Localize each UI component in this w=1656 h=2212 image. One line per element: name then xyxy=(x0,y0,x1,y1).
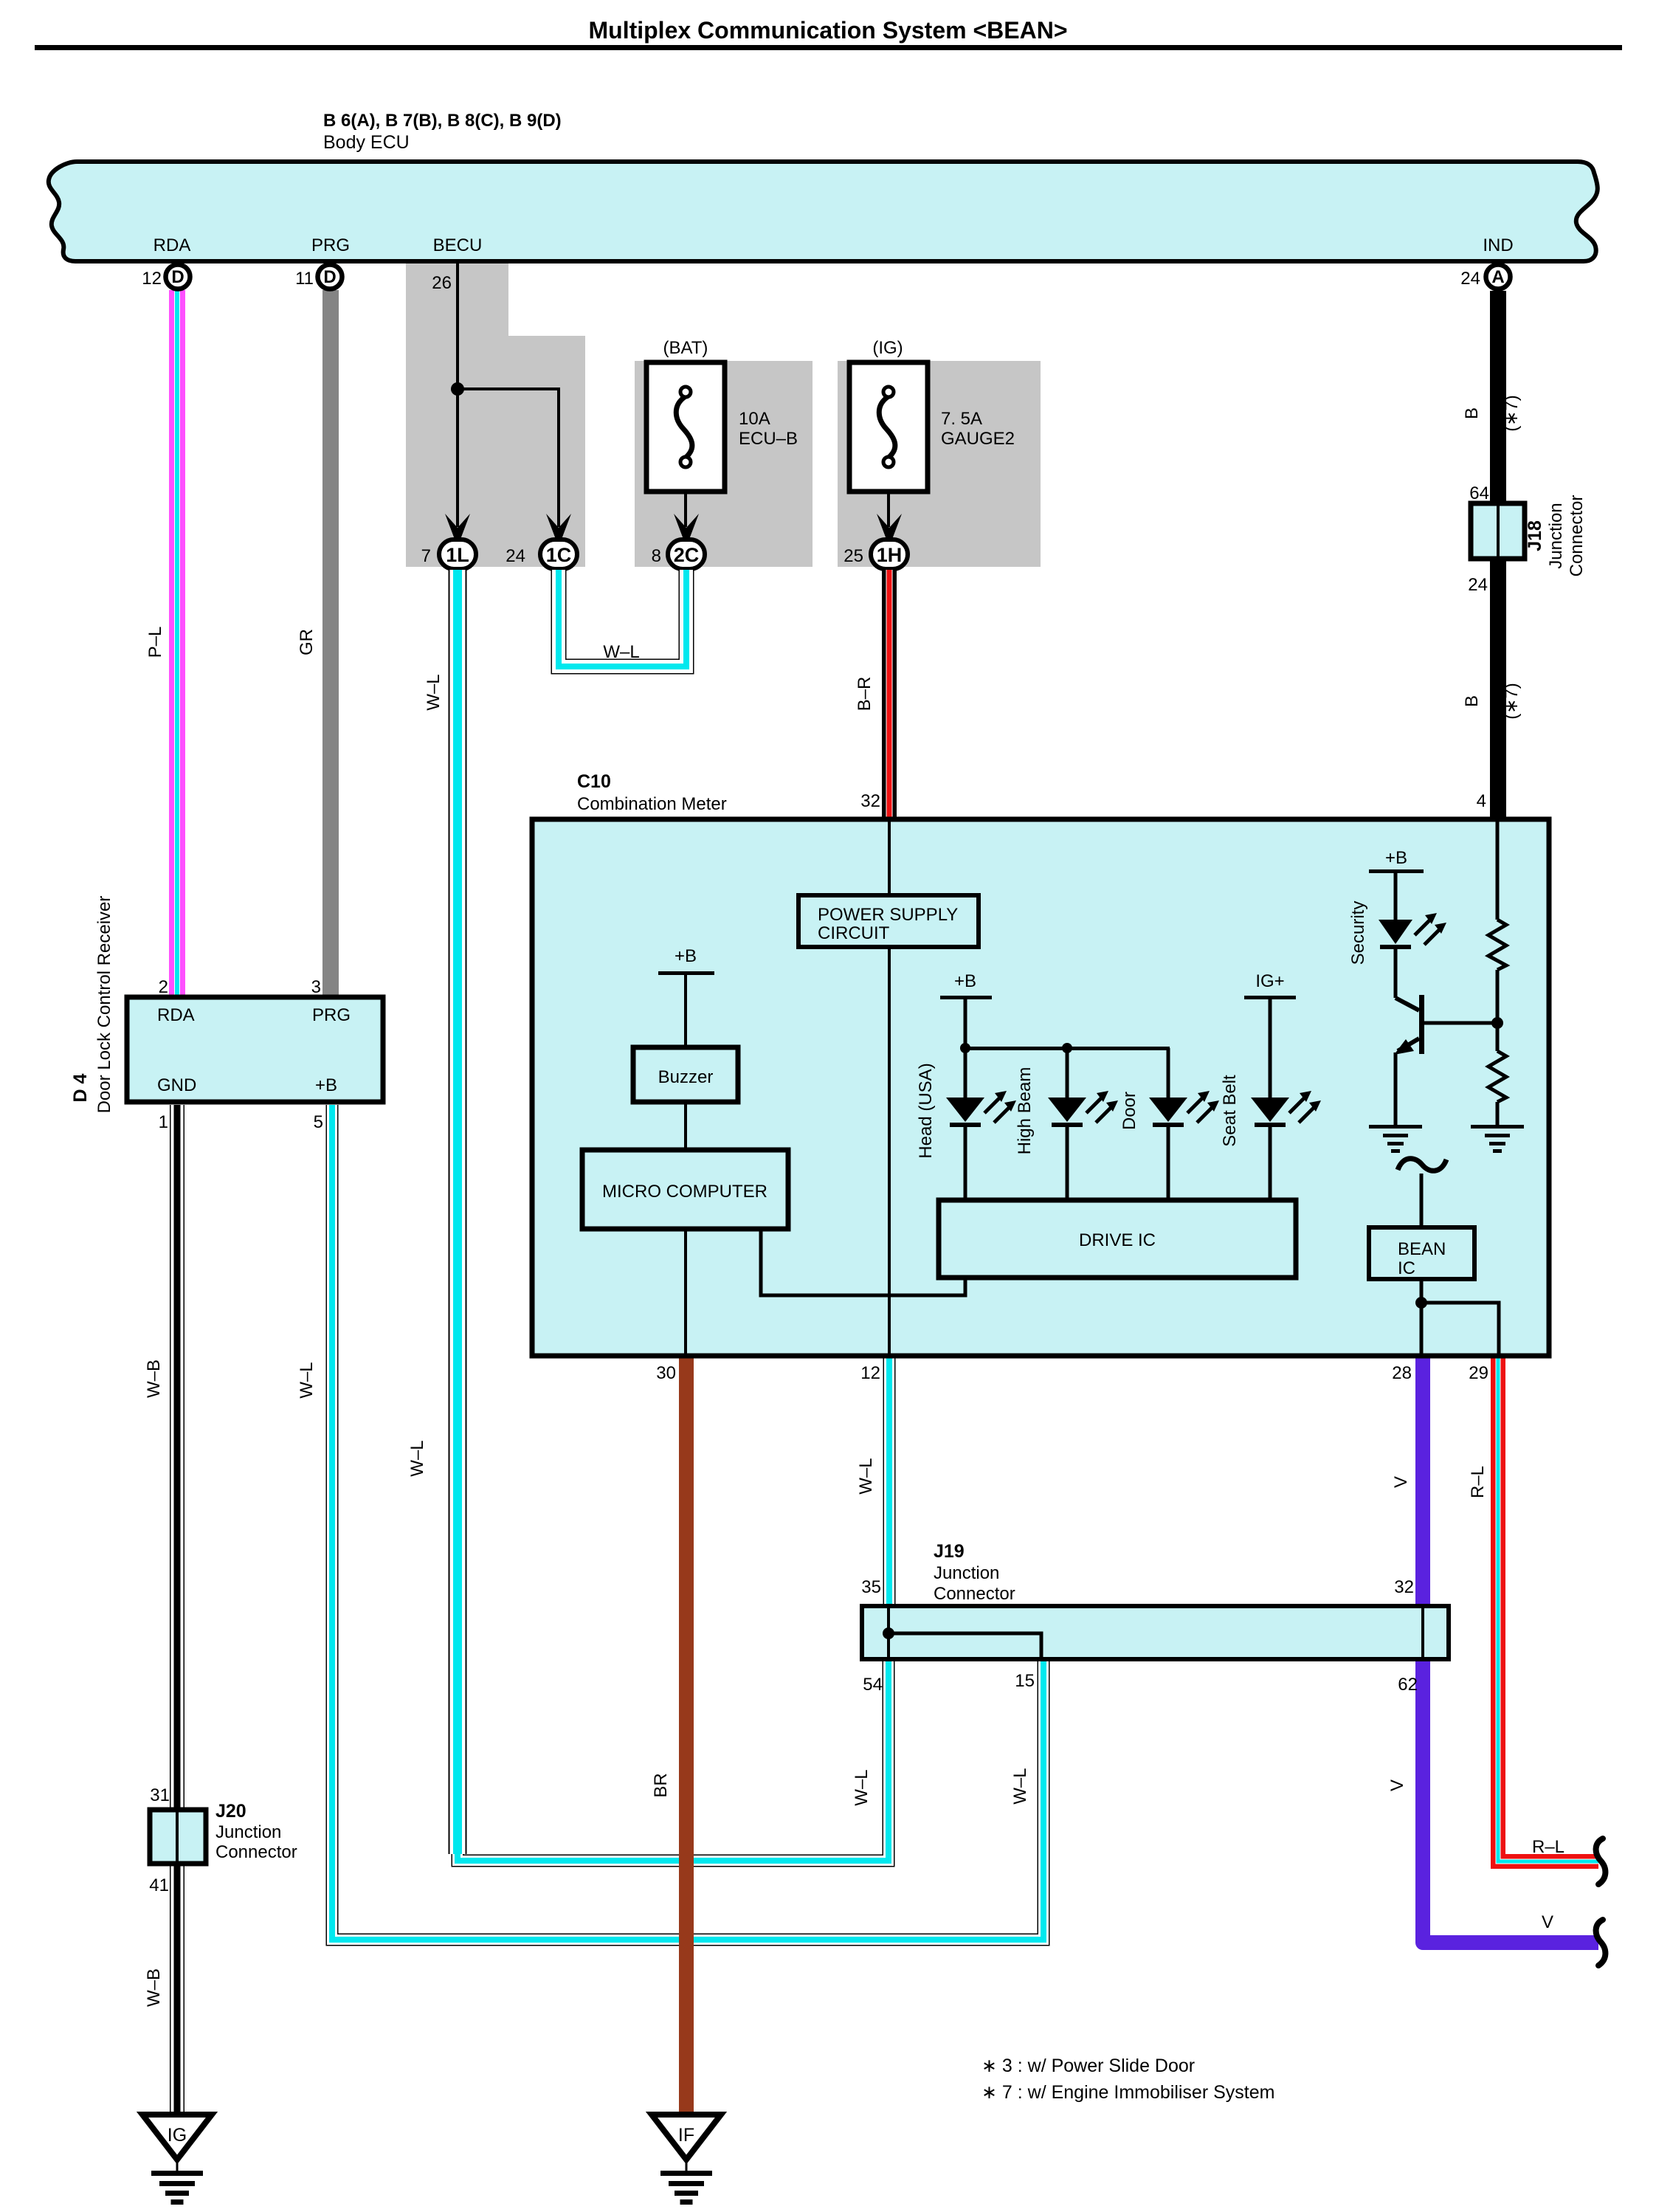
svg-text:Combination Meter: Combination Meter xyxy=(577,794,727,814)
svg-text:Door Lock Control Receiver: Door Lock Control Receiver xyxy=(94,896,114,1114)
svg-text:(BAT): (BAT) xyxy=(663,338,708,358)
svg-text:5: 5 xyxy=(314,1112,323,1132)
svg-text:1H: 1H xyxy=(877,544,903,566)
svg-text:∗ 7 : w/ Engine Immobiliser Sy: ∗ 7 : w/ Engine Immobiliser System xyxy=(981,2082,1274,2103)
svg-text:1C: 1C xyxy=(546,544,572,566)
svg-text:BECU: BECU xyxy=(433,235,483,255)
svg-text:Connector: Connector xyxy=(215,1842,297,1862)
svg-text:64: 64 xyxy=(1469,483,1489,503)
svg-text:+B: +B xyxy=(954,971,976,991)
svg-text:GAUGE2: GAUGE2 xyxy=(941,429,1015,449)
svg-text:W–L: W–L xyxy=(1010,1768,1030,1804)
svg-text:D: D xyxy=(171,267,184,287)
svg-text:B: B xyxy=(1462,407,1482,419)
svg-text:D 4: D 4 xyxy=(70,1073,91,1102)
svg-text:Junction: Junction xyxy=(1546,503,1566,568)
svg-text:W–L: W–L xyxy=(424,674,444,710)
svg-text:V: V xyxy=(1542,1912,1553,1932)
svg-text:7. 5A: 7. 5A xyxy=(941,409,982,429)
svg-text:Connector: Connector xyxy=(934,1584,1015,1604)
svg-text:(∗7): (∗7) xyxy=(1502,683,1522,719)
svg-text:1: 1 xyxy=(159,1112,168,1132)
svg-text:P–L: P–L xyxy=(145,627,165,658)
svg-text:W–L: W–L xyxy=(297,1362,317,1398)
svg-text:Connector: Connector xyxy=(1567,495,1587,577)
svg-text:10A: 10A xyxy=(739,409,770,429)
svg-text:J19: J19 xyxy=(934,1541,965,1562)
svg-text:30: 30 xyxy=(656,1363,676,1383)
svg-text:1L: 1L xyxy=(446,544,469,566)
svg-text:W–L: W–L xyxy=(603,642,639,662)
svg-text:Buzzer: Buzzer xyxy=(658,1067,714,1087)
svg-text:MICRO COMPUTER: MICRO COMPUTER xyxy=(602,1182,767,1202)
svg-text:A: A xyxy=(1491,267,1504,287)
svg-text:25: 25 xyxy=(843,546,863,566)
svg-text:∗ 3 : w/ Power Slide Door: ∗ 3 : w/ Power Slide Door xyxy=(981,2056,1195,2076)
svg-text:GR: GR xyxy=(297,629,317,655)
svg-text:26: 26 xyxy=(432,273,452,293)
svg-text:W–B: W–B xyxy=(144,1360,164,1398)
svg-text:12: 12 xyxy=(142,269,162,289)
svg-text:PRG: PRG xyxy=(312,1005,351,1025)
svg-text:J18: J18 xyxy=(1525,520,1545,551)
svg-text:W–L: W–L xyxy=(852,1769,872,1805)
svg-text:Security: Security xyxy=(1348,901,1368,965)
svg-text:Multiplex Communication System: Multiplex Communication System <BEAN> xyxy=(588,17,1067,44)
svg-text:32: 32 xyxy=(860,791,880,811)
svg-text:IG: IG xyxy=(168,2125,187,2146)
svg-text:28: 28 xyxy=(1392,1363,1412,1383)
svg-text:J20: J20 xyxy=(215,1801,246,1822)
svg-text:C10: C10 xyxy=(577,771,611,792)
svg-text:DRIVE IC: DRIVE IC xyxy=(1079,1230,1156,1250)
svg-text:11: 11 xyxy=(295,269,314,289)
svg-text:35: 35 xyxy=(861,1577,881,1597)
svg-text:RDA: RDA xyxy=(157,1005,195,1025)
svg-text:Head (USA): Head (USA) xyxy=(916,1063,936,1158)
svg-text:B 6(A), B 7(B), B 8(C), B 9(D): B 6(A), B 7(B), B 8(C), B 9(D) xyxy=(323,111,562,131)
svg-text:High Beam: High Beam xyxy=(1015,1067,1035,1155)
svg-text:62: 62 xyxy=(1398,1675,1418,1695)
svg-text:W–L: W–L xyxy=(856,1458,876,1494)
svg-text:24: 24 xyxy=(506,546,525,566)
svg-text:(∗7): (∗7) xyxy=(1502,395,1522,431)
svg-text:(IG): (IG) xyxy=(872,338,903,358)
svg-text:4: 4 xyxy=(1477,791,1486,811)
svg-text:2: 2 xyxy=(159,977,168,997)
svg-text:GND: GND xyxy=(157,1075,196,1095)
svg-text:V: V xyxy=(1387,1779,1407,1791)
svg-text:RDA: RDA xyxy=(153,235,191,255)
svg-text:24: 24 xyxy=(1468,575,1488,595)
svg-text:IG+: IG+ xyxy=(1255,971,1284,991)
svg-text:B: B xyxy=(1462,695,1482,707)
svg-text:IND: IND xyxy=(1483,235,1513,255)
svg-text:29: 29 xyxy=(1469,1363,1488,1383)
svg-text:+B: +B xyxy=(315,1075,337,1095)
svg-text:41: 41 xyxy=(149,1875,169,1895)
svg-text:PRG: PRG xyxy=(311,235,350,255)
svg-text:8: 8 xyxy=(652,546,661,566)
svg-text:Door: Door xyxy=(1119,1092,1139,1130)
svg-text:W–L: W–L xyxy=(407,1440,427,1476)
svg-text:ECU–B: ECU–B xyxy=(739,429,798,449)
svg-text:CIRCUIT: CIRCUIT xyxy=(818,923,890,943)
svg-text:BEAN: BEAN xyxy=(1398,1239,1446,1259)
svg-text:12: 12 xyxy=(860,1363,880,1383)
svg-text:24: 24 xyxy=(1460,269,1480,289)
svg-text:31: 31 xyxy=(150,1785,170,1805)
svg-text:W–B: W–B xyxy=(144,1968,164,2007)
svg-text:+B: +B xyxy=(675,946,697,966)
svg-text:32: 32 xyxy=(1394,1577,1414,1597)
svg-text:+B: +B xyxy=(1385,848,1407,868)
svg-text:Seat Belt: Seat Belt xyxy=(1220,1075,1240,1147)
svg-text:D: D xyxy=(323,267,336,287)
svg-text:R–L: R–L xyxy=(1468,1466,1488,1498)
svg-text:Junction: Junction xyxy=(934,1563,999,1583)
svg-text:B–R: B–R xyxy=(855,677,874,712)
svg-text:IC: IC xyxy=(1398,1258,1415,1278)
svg-text:3: 3 xyxy=(311,977,321,997)
svg-text:POWER SUPPLY: POWER SUPPLY xyxy=(818,905,958,925)
svg-text:V: V xyxy=(1391,1476,1411,1488)
svg-text:BR: BR xyxy=(651,1773,671,1797)
svg-text:2C: 2C xyxy=(674,544,700,566)
svg-text:R–L: R–L xyxy=(1532,1837,1564,1857)
svg-text:IF: IF xyxy=(678,2125,694,2146)
svg-text:Junction: Junction xyxy=(215,1822,281,1842)
svg-text:54: 54 xyxy=(863,1675,883,1695)
svg-text:7: 7 xyxy=(421,546,431,566)
svg-text:Body ECU: Body ECU xyxy=(323,132,410,153)
svg-text:15: 15 xyxy=(1015,1671,1035,1691)
